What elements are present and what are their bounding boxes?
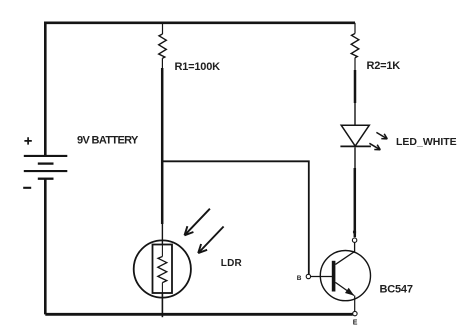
wire R2 top lead — [354, 23, 356, 34]
svg-text:9V BATTERY: 9V BATTERY — [77, 135, 139, 147]
wire LDR bottom lead — [161, 293, 163, 317]
wire top rail — [45, 21, 355, 24]
svg-text:BC547: BC547 — [380, 283, 413, 295]
wire R1 to node A (thick pin segment) — [161, 68, 164, 224]
wire LED cathode lead — [354, 147, 356, 168]
svg-text:B: B — [297, 275, 302, 282]
transistor emitter arrowhead — [345, 288, 354, 296]
transistor Q1 base bar — [332, 261, 336, 292]
transistor emitter line — [335, 282, 354, 295]
wire LDR top lead — [161, 224, 163, 245]
LED light arrow 1 — [376, 132, 387, 139]
LED light arrow 2 — [369, 143, 380, 150]
wire R2 bottom lead thin — [354, 58, 356, 70]
LED D1 (LED_WHITE) — [340, 125, 371, 146]
svg-text:LED_WHITE: LED_WHITE — [396, 136, 457, 148]
wire collector pin (thick segment) — [354, 168, 357, 237]
LDR light arrow 2 — [198, 227, 223, 254]
battery plus label — [24, 137, 31, 144]
LDR light arrow 1 — [185, 209, 210, 236]
wire left rail (battery + lead) — [44, 22, 47, 156]
wire R1 bottom lead — [161, 58, 163, 68]
svg-text:R1=100K: R1=100K — [175, 61, 221, 73]
wire emitter lead — [354, 296, 356, 312]
transistor Q1 body circle — [320, 251, 370, 301]
node A middle wire to transistor base — [162, 161, 309, 274]
svg-text:E: E — [353, 319, 358, 326]
collector terminal circle — [352, 238, 356, 242]
resistor R2 — [351, 34, 359, 58]
wire R1 top lead — [162, 23, 164, 34]
wire R2 pin (thick segment) — [354, 70, 357, 103]
wire LED anode lead — [354, 103, 356, 125]
wire battery negative lead — [44, 179, 47, 315]
svg-text:R2=1K: R2=1K — [367, 60, 401, 72]
svg-text:c: c — [353, 229, 357, 236]
base terminal circle — [306, 274, 310, 278]
wire bottom rail (ground return) — [45, 313, 353, 316]
LDR LDR1 — [134, 240, 191, 297]
wire base lead — [311, 276, 332, 278]
emitter terminal circle — [353, 311, 357, 315]
battery minus label — [23, 187, 31, 189]
battery BAT1 — [24, 156, 68, 179]
resistor R1 — [159, 34, 167, 58]
svg-text:LDR: LDR — [221, 258, 243, 269]
wire collector into transistor — [335, 243, 354, 265]
